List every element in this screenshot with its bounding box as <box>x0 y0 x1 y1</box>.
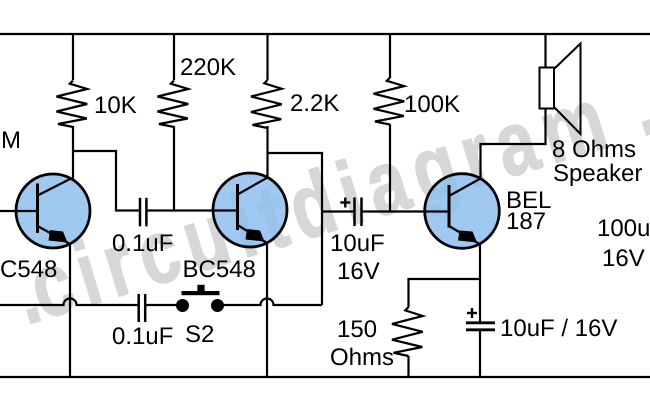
wire top supply rail <box>0 33 650 35</box>
label 2.2K <box>291 94 339 111</box>
transistor Q1 collector stroke <box>38 179 72 196</box>
wire Q1 emitter to ground <box>69 244 71 377</box>
transistor Q3 collector stroke <box>449 179 481 197</box>
switch S2 contacts and bar <box>176 285 224 312</box>
label 10uF <box>332 234 384 251</box>
transistor Q1 body fill <box>16 174 90 248</box>
capacitor C1 0.1uF plates <box>140 198 146 227</box>
transistor Q2 emitter arrow <box>246 229 265 242</box>
label Ohms <box>331 348 393 366</box>
label Speaker <box>554 164 642 186</box>
label 10uF / 16V <box>502 319 618 337</box>
transistor Q3 emitter arrow <box>458 231 477 243</box>
transistor Q2 body fill <box>213 173 287 247</box>
transistor Q2 outline <box>213 173 287 247</box>
label BC548 <box>185 260 255 277</box>
wire Q3 collector to speaker <box>481 109 546 180</box>
transistor Q3 emitter stroke <box>449 226 480 244</box>
capacitor C4 10uF/16V plates <box>466 323 495 330</box>
label 8 Ohms <box>553 140 635 158</box>
label 16Vright <box>604 249 645 266</box>
label 187 <box>508 212 545 229</box>
label C548cut <box>0 260 56 277</box>
label 0.1uF <box>113 234 172 251</box>
wire bottom ground rail <box>0 376 650 378</box>
transistor Q1 base bar <box>36 184 39 234</box>
wire C3 to Q3 base <box>362 210 450 212</box>
wire C2 to S2 left contact <box>145 304 178 306</box>
capacitor C2 0.1uF plates <box>139 294 146 322</box>
wire Q2 collector feedback branch <box>268 153 323 305</box>
plus sign C4 <box>467 308 477 318</box>
wire S2 right contact to Q2 collector node with hop over Q2 emitter <box>221 299 322 305</box>
label 150 <box>339 320 376 337</box>
wire Q1 base input <box>0 210 38 212</box>
wire Q1 collector drop <box>72 151 74 180</box>
transistor Q3 body fill <box>425 174 500 249</box>
label 10K <box>96 96 137 113</box>
label 100u <box>599 219 649 236</box>
wire emitter branch to R5 <box>409 279 481 307</box>
resistor R2 220K <box>158 34 189 211</box>
resistor R1 10K <box>57 34 88 151</box>
wire C3 tap <box>322 210 355 212</box>
label BEL <box>508 192 551 209</box>
transistor Q1 emitter arrow <box>49 230 68 243</box>
watermark www.circuitdiagram.com <box>0 70 650 358</box>
speaker LS1 frame <box>540 68 555 109</box>
resistor R3 2.2K <box>251 34 282 178</box>
wire node Q1 collector to C1 branch <box>73 151 140 211</box>
label 0.1uF2 <box>113 327 172 344</box>
transistor Q1 emitter stroke <box>38 226 71 244</box>
label 100K <box>406 95 460 112</box>
transistor Q2 emitter stroke <box>238 225 268 243</box>
wire C1 to Q2 base <box>146 209 237 211</box>
resistor R5 150 Ohms <box>392 307 423 377</box>
speaker LS1 cone <box>554 44 581 135</box>
wire C4 to ground <box>479 331 481 377</box>
capacitor C3 10uF plates <box>355 198 362 227</box>
transistor Q2 collector stroke <box>238 178 268 195</box>
label 16V <box>339 262 380 279</box>
transistor Q3 base bar <box>448 185 451 228</box>
wire Q3 emitter down <box>479 244 481 322</box>
label S2 <box>186 325 213 342</box>
label 220K <box>181 58 236 75</box>
transistor Q3 outline <box>425 174 500 249</box>
plus sign C3 <box>340 198 350 208</box>
wire speaker to top rail <box>544 34 546 68</box>
label M <box>3 132 19 149</box>
transistor Q2 base bar <box>236 184 239 230</box>
resistor R4 100K <box>374 34 405 212</box>
wire S2 line left segment with hop over Q1 emitter <box>0 299 139 305</box>
wire Q2 emitter to ground <box>266 243 268 377</box>
transistor Q1 outline <box>16 174 90 248</box>
